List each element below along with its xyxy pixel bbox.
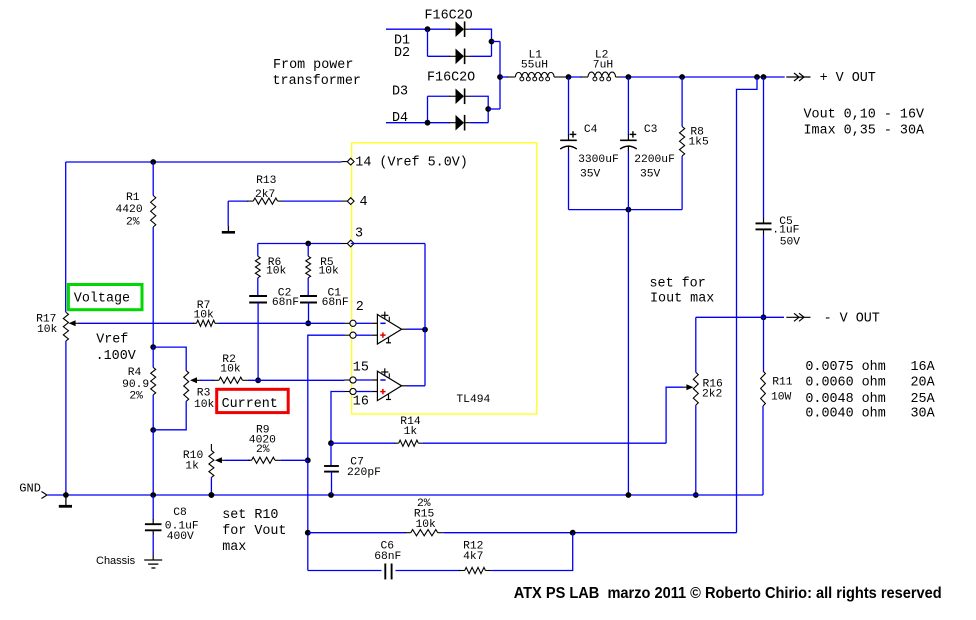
pin 16 <box>345 391 350 393</box>
resistor R9 <box>248 459 251 461</box>
node C5 tap <box>761 74 767 80</box>
svg-text:1k5: 1k5 <box>688 136 709 148</box>
wire node to GND <box>152 430 154 495</box>
node D1-D2 cathodes <box>489 39 495 45</box>
svg-text:16: 16 <box>353 395 369 410</box>
svg-text:Chassis: Chassis <box>96 555 136 567</box>
svg-text:0.0075 ohm: 0.0075 ohm <box>805 360 885 375</box>
node D3-D4 branch <box>425 120 431 126</box>
svg-text:50V: 50V <box>780 237 801 249</box>
node feedback tap <box>754 74 760 80</box>
node C6-R12 right <box>570 530 576 536</box>
wire R6 to C2 <box>257 278 259 296</box>
pin 1 <box>345 334 350 336</box>
op-amp U1A minus sign <box>380 322 385 324</box>
resistor R1 <box>151 196 156 228</box>
resistor R7 <box>193 322 197 324</box>
node D1-D2 branch <box>425 26 431 32</box>
svg-text:25A: 25A <box>911 392 936 407</box>
node C8 top <box>150 492 156 498</box>
wire C4 top lead <box>568 77 570 135</box>
wire C8 top lead <box>152 495 154 520</box>
svg-text:15: 15 <box>353 361 369 376</box>
svg-text:68nF: 68nF <box>374 551 401 563</box>
wire C3 node to GND rail <box>627 210 629 495</box>
voltage label box <box>68 285 142 310</box>
wire pin3 internal <box>351 243 425 245</box>
svg-text:10k: 10k <box>266 265 287 277</box>
wire R4 bottom lead <box>152 395 154 430</box>
svg-text:Imax 0,35 - 30A: Imax 0,35 - 30A <box>804 124 925 139</box>
wire R3 branch bottom <box>153 401 186 430</box>
svg-text:.1uF: .1uF <box>772 224 799 236</box>
resistor R3 <box>184 371 189 402</box>
wire R12 to R15 right node <box>491 533 572 571</box>
op-amp U1B inverting input wire <box>356 379 372 381</box>
svg-text:4: 4 <box>360 195 368 210</box>
svg-text:set for: set for <box>650 277 706 292</box>
svg-text:2k2: 2k2 <box>702 389 722 401</box>
wire C7 bottom lead <box>331 472 333 495</box>
resistor R17 <box>63 312 68 341</box>
wire +V feedback jog <box>737 77 758 533</box>
wire R3 branch top <box>153 347 186 371</box>
wire feedback node down <box>307 460 309 570</box>
pin 2 <box>345 322 350 324</box>
diode D4 <box>456 115 465 131</box>
diode D2 <box>456 49 465 65</box>
wire pin16 to R14 node <box>331 392 345 444</box>
svg-text:10k: 10k <box>194 399 215 411</box>
svg-text:0.0048 ohm: 0.0048 ohm <box>805 392 885 407</box>
wire R15 right <box>444 532 737 534</box>
ground pin4 <box>227 226 229 232</box>
wire C3 bottom lead <box>627 151 629 210</box>
wire cathode join to bus <box>492 41 501 43</box>
wire D1 cathode corner <box>471 29 492 56</box>
svg-text:GND: GND <box>19 482 41 496</box>
node pin2 junction <box>305 320 311 326</box>
wire pin4 ground branch <box>228 200 248 202</box>
svg-text:3: 3 <box>355 227 363 242</box>
wire R16 top <box>695 317 697 372</box>
op-amp U1B minus sign <box>380 379 385 381</box>
node R15 left <box>305 530 311 536</box>
svg-text:F16C2O: F16C2O <box>427 71 475 86</box>
capacitor C7 <box>324 465 339 467</box>
wire C6 to R12 <box>396 570 461 572</box>
wire op outputs junction <box>424 244 426 386</box>
svg-text:35V: 35V <box>580 168 601 180</box>
svg-text:55uH: 55uH <box>521 59 548 71</box>
wire C8 to chassis <box>152 535 154 554</box>
resistor R4 <box>151 367 156 394</box>
op-amp U1B minus supply mark <box>388 394 390 400</box>
svg-text:C4: C4 <box>584 124 598 136</box>
svg-text:7uH: 7uH <box>593 59 613 71</box>
inductor L2 <box>581 76 589 78</box>
node R10 ground <box>209 492 215 498</box>
op-amp U1B noninverting input wire <box>356 391 372 393</box>
node R16 ground <box>693 492 699 498</box>
svg-text:C3: C3 <box>644 124 658 136</box>
node C3 tap <box>626 74 632 80</box>
wire U1B output <box>402 385 407 387</box>
svg-text:Vref: Vref <box>96 333 128 348</box>
wire D3 cathode corner <box>471 96 489 122</box>
svg-text:4k7: 4k7 <box>463 551 483 563</box>
wiper arrow R10 <box>215 457 222 463</box>
wiper arrow R16 <box>686 384 693 390</box>
svg-text:10k: 10k <box>220 364 241 376</box>
svg-text:3300uF: 3300uF <box>578 154 619 166</box>
wiper arrow R3 <box>190 377 197 383</box>
wire R8 top lead <box>681 77 683 127</box>
wire Vref rail <box>66 161 342 163</box>
wire R8 bottom lead <box>681 156 683 210</box>
svg-text:10W: 10W <box>771 392 792 404</box>
wire C1 bottom lead <box>308 303 310 324</box>
svg-text:Voltage: Voltage <box>74 292 130 307</box>
svg-text:16A: 16A <box>911 360 936 375</box>
wire R4 top lead <box>152 347 154 367</box>
svg-text:R3: R3 <box>197 387 211 399</box>
svg-text:Iout max: Iout max <box>650 292 714 307</box>
diode D3 <box>456 88 465 104</box>
wire cathode join to bus <box>488 108 500 110</box>
op-amp U1A noninverting input wire <box>356 334 372 336</box>
op-amp U1A plus sign <box>380 334 385 336</box>
wire C2 bottom to R2 net <box>257 303 259 381</box>
svg-text:2k7: 2k7 <box>255 189 275 201</box>
pin 14 <box>342 161 348 163</box>
wire R6 top lead <box>257 244 259 257</box>
svg-text:0.0060 ohm: 0.0060 ohm <box>805 376 885 391</box>
wire C7 top lead <box>330 443 332 466</box>
svg-text:C8: C8 <box>173 507 187 519</box>
resistor R12 <box>459 570 465 572</box>
node R14 left <box>328 440 334 446</box>
node -V OUT <box>761 314 767 320</box>
wire R11 bottom lead <box>762 406 764 495</box>
wire to ground symbol <box>227 201 229 226</box>
svg-text:Current: Current <box>222 397 278 412</box>
node R9 junction <box>305 457 311 463</box>
wire R5 to C1 <box>307 278 309 296</box>
svg-text:R11: R11 <box>772 377 793 389</box>
capacitor C4 <box>568 134 570 140</box>
resistor R10 <box>209 451 214 478</box>
op-amp U1B triangle <box>377 371 401 400</box>
wire R17 wiper to R7 <box>79 322 195 324</box>
wire C5 bottom lead <box>763 236 765 318</box>
svg-text:R4: R4 <box>128 367 142 379</box>
IC TL494 box <box>352 143 537 414</box>
capacitor C5 <box>763 218 765 223</box>
capacitor C1 <box>300 295 317 297</box>
current label box <box>217 389 289 412</box>
node C7 gnd <box>328 492 334 498</box>
node R8 tap <box>679 74 685 80</box>
resistor R15 <box>405 532 411 534</box>
svg-text:set R10: set R10 <box>222 508 278 523</box>
svg-text:R1: R1 <box>126 192 140 204</box>
svg-text:.100V: .100V <box>96 349 136 364</box>
op-amp U1B plus supply mark <box>381 371 388 373</box>
wire R11 top lead <box>763 317 765 371</box>
resistor R6 <box>255 256 260 278</box>
wire R16 wiper to R14 <box>666 387 683 443</box>
wire D4 cathode <box>471 122 489 124</box>
wire R7 to pin2 <box>219 322 345 324</box>
wire C4-C3-R8 bottom bus <box>569 209 683 211</box>
node R4 bottom <box>150 427 156 433</box>
capacitor C8 <box>152 519 154 524</box>
resistor R13 <box>247 200 253 202</box>
svg-text:- V OUT: - V OUT <box>824 312 880 327</box>
svg-text:D2: D2 <box>394 46 410 61</box>
wire pin3 net <box>258 243 342 245</box>
wire R10 bottom lead <box>210 477 212 495</box>
resistor R8 <box>679 127 684 156</box>
node op outputs <box>422 327 428 333</box>
svg-text:2200uF: 2200uF <box>634 154 675 166</box>
svg-text:0.0040 ohm: 0.0040 ohm <box>805 407 885 422</box>
arrow -V OUT <box>786 316 810 318</box>
wiper arrow R17 <box>69 320 76 326</box>
svg-text:20A: 20A <box>911 376 936 391</box>
wire D4 anode <box>386 122 450 124</box>
svg-text:10k: 10k <box>319 265 340 277</box>
wire R13 to pin4 <box>283 200 342 202</box>
svg-text:68nF: 68nF <box>322 297 349 309</box>
svg-text:D3: D3 <box>392 85 408 100</box>
op-amp U1A inverting input wire <box>356 322 372 324</box>
svg-text:ATX PS LAB marzo 2011 © Rober: ATX PS LAB marzo 2011 © Roberto Chirio: … <box>514 585 942 602</box>
wire R14 left <box>331 442 396 444</box>
wire R15 left <box>308 532 406 534</box>
wire R17 bottom to GND <box>65 341 67 495</box>
node rectifier output <box>497 74 503 80</box>
svg-text:transformer: transformer <box>273 74 361 89</box>
wire C5 top lead <box>763 77 765 218</box>
wire R16 bottom lead <box>695 405 697 495</box>
wire R3 wiper to R2 <box>200 379 214 381</box>
diode D1 <box>456 21 465 37</box>
wire R1 top lead <box>152 162 154 196</box>
svg-text:68nF: 68nF <box>272 297 299 309</box>
svg-text:1k: 1k <box>185 460 199 472</box>
node R10 gnd <box>209 492 215 498</box>
node C3 bottom <box>626 207 632 213</box>
wire C3 top lead <box>627 77 629 135</box>
arrow GND <box>42 492 48 499</box>
resistor R5 <box>306 256 311 278</box>
wire pin1 to feedback node <box>308 335 345 460</box>
svg-text:35V: 35V <box>640 168 661 180</box>
node C3 gnd <box>626 492 632 498</box>
wire D2 cathode <box>471 55 492 57</box>
svg-text:30A: 30A <box>911 407 936 422</box>
capacitor C3 <box>627 134 629 140</box>
node gnd sym <box>63 492 69 498</box>
wire D1 anode <box>386 28 450 30</box>
wire rectifier bus <box>499 42 501 110</box>
svg-text:max: max <box>222 540 246 555</box>
resistor R14 <box>395 442 399 444</box>
svg-text:10k: 10k <box>37 324 58 336</box>
svg-text:14 (Vref 5.0V): 14 (Vref 5.0V) <box>355 156 468 171</box>
op-amp U1A triangle <box>377 315 401 345</box>
resistor R10 top stub <box>210 444 212 451</box>
chassis ground symbol <box>152 554 154 560</box>
wire rail to L1 <box>500 76 508 78</box>
svg-text:220pF: 220pF <box>347 467 381 479</box>
ground symbol <box>65 495 67 506</box>
resistor R2 <box>213 379 219 381</box>
arrow +V OUT <box>786 76 810 78</box>
wire R5 top lead <box>307 244 309 257</box>
capacitor C2 <box>249 295 267 297</box>
node R1 top <box>150 159 156 165</box>
node R4 top <box>150 344 156 350</box>
capacitor C6 <box>384 564 386 580</box>
wire D2 anode <box>428 55 451 57</box>
wire D3 to D4 <box>427 96 429 122</box>
svg-text:+ V OUT: + V OUT <box>820 71 876 86</box>
wire R10 wiper to R9 <box>225 459 250 461</box>
wire D3 anode <box>428 95 451 97</box>
op-amp U1A plus supply mark <box>381 314 388 316</box>
svg-text:2%: 2% <box>129 390 143 402</box>
wire L2 to +V OUT <box>621 76 785 78</box>
wire U1A output <box>402 328 407 330</box>
svg-text:D4: D4 <box>392 111 408 126</box>
svg-text:R13: R13 <box>256 175 277 187</box>
svg-text:TL494: TL494 <box>456 394 490 406</box>
pin 4 <box>342 200 348 202</box>
wire R14 right to R16 wiper <box>422 442 666 444</box>
svg-text:4420: 4420 <box>116 204 143 216</box>
svg-text:2%: 2% <box>256 444 270 456</box>
op-amp U1B plus sign <box>380 391 385 393</box>
node C2 to R2 wire <box>255 377 261 383</box>
wire -V OUT <box>696 316 784 318</box>
svg-text:10k: 10k <box>194 310 215 322</box>
wire C6 branch left <box>308 570 382 572</box>
inductor L1 <box>507 76 515 78</box>
pin 15 <box>345 379 350 381</box>
svg-text:2%: 2% <box>126 216 140 228</box>
node D3-D4 cathodes <box>485 106 491 112</box>
wire GND rail <box>48 494 764 496</box>
svg-text:90.9: 90.9 <box>122 379 149 391</box>
svg-text:1k: 1k <box>404 426 418 438</box>
pin 3 <box>342 243 348 245</box>
wire C4 bottom lead <box>568 151 570 210</box>
wire R2 to pin15 <box>248 379 345 381</box>
wire R9 to feedback node <box>281 459 308 461</box>
svg-text:Vout 0,10 - 16V: Vout 0,10 - 16V <box>804 108 925 123</box>
svg-text:F16C2O: F16C2O <box>425 9 473 24</box>
node R5 top <box>305 241 311 247</box>
wire left vertical to R17 <box>65 162 67 312</box>
wire R1 bottom lead <box>152 227 154 347</box>
svg-text:for Vout: for Vout <box>222 524 286 539</box>
node C4 tap <box>566 74 572 80</box>
svg-text:400V: 400V <box>167 531 194 543</box>
svg-text:From power: From power <box>273 58 353 73</box>
resistor R16 <box>693 372 698 405</box>
wire D1 to D2 <box>427 29 429 56</box>
wire L1 to C4 node <box>565 76 582 78</box>
op-amp U1A minus supply mark <box>388 337 390 343</box>
resistor R11 <box>761 371 766 406</box>
svg-text:2: 2 <box>356 300 364 315</box>
svg-text:10k: 10k <box>416 519 437 531</box>
